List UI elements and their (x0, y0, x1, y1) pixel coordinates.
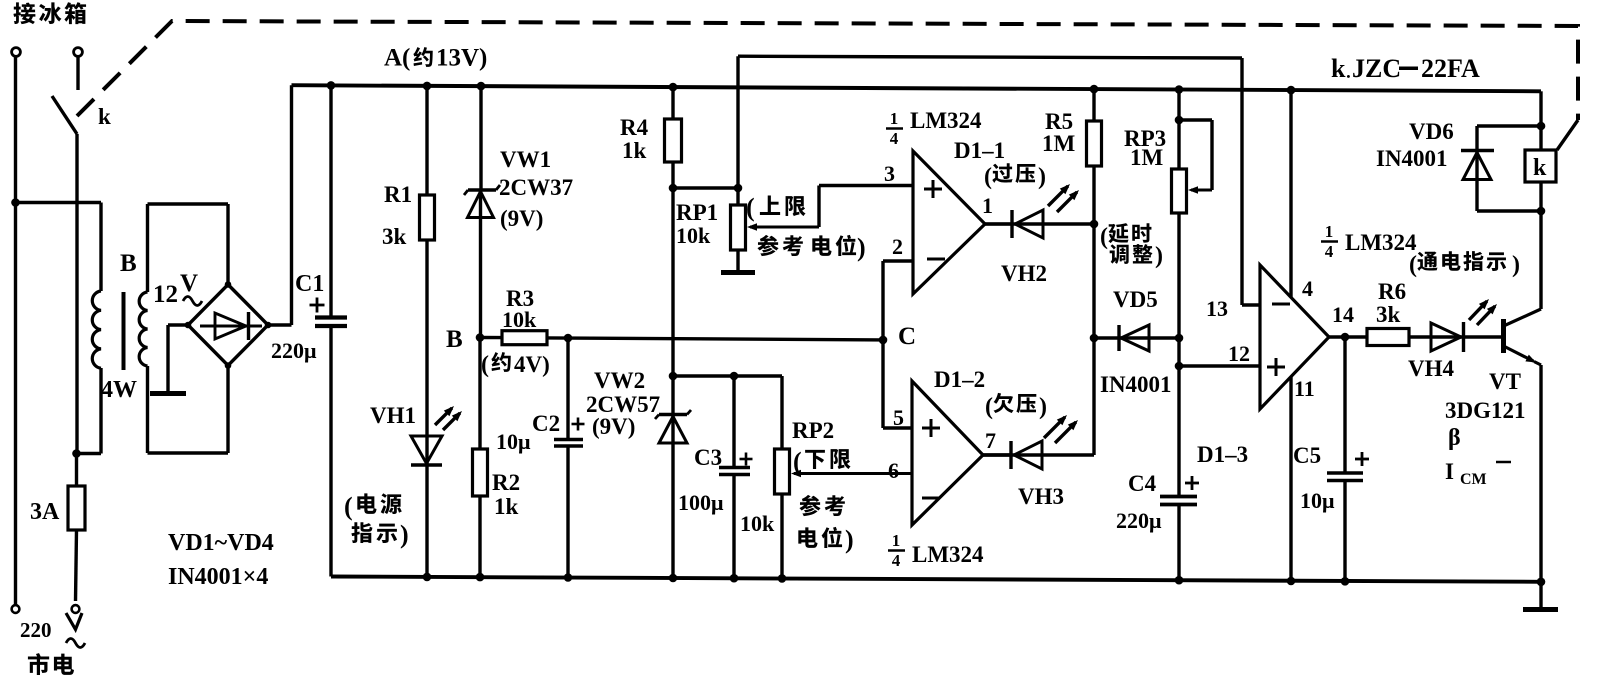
node emitter-rail (1537, 578, 1546, 587)
label 1/4 (D1-2) (888, 531, 905, 570)
wire VD6 bottom (1477, 209, 1541, 212)
svg-text:22FA: 22FA (1421, 54, 1480, 83)
label 220u (C1) (271, 338, 317, 363)
minus D1-1 (927, 258, 945, 261)
svg-text:A(: A( (384, 45, 410, 72)
transformer primary lead top (99, 203, 102, 292)
wire pin1 out (985, 222, 1012, 225)
wire RP3/VD5 down (1177, 338, 1180, 497)
svg-text:IN4001: IN4001 (1100, 372, 1172, 397)
label (9V) VW1 (500, 206, 543, 231)
svg-text:VT: VT (1489, 369, 1521, 394)
svg-text:12: 12 (153, 281, 178, 308)
wire rail to relay (1539, 91, 1542, 126)
svg-text:13: 13 (1206, 296, 1228, 321)
capacitor C1 220u (315, 85, 347, 576)
terminal refrigerator left (12, 48, 21, 57)
svg-text:1M: 1M (1042, 131, 1076, 156)
resistor R4 1k (665, 87, 682, 188)
node VH2-R5 (1090, 220, 1099, 229)
terminal mains left (12, 605, 20, 613)
node rail-R5 (1090, 85, 1099, 94)
svg-text:R6: R6 (1378, 279, 1406, 304)
resistor R6 3k (1367, 329, 1431, 346)
node C5-rail (1341, 577, 1350, 586)
tilde 220~ (66, 639, 85, 648)
svg-text:10μ: 10μ (1300, 488, 1335, 513)
wire mains dashed linkage from switch k to relay (77, 21, 1578, 120)
label beta (1448, 425, 1461, 451)
label VH3 (1018, 484, 1064, 509)
resistor R5 1M (1087, 89, 1102, 455)
transformer core (122, 292, 126, 370)
label RP1 (676, 200, 718, 225)
label VW1 (500, 147, 551, 172)
relay coil k JZC-22FA (1525, 126, 1556, 211)
transformer primary winding (92, 291, 101, 368)
wiper RP3 bracket (1179, 120, 1212, 194)
wire RP1 top to pin 13 (738, 56, 1242, 305)
op-amp D1-3 LM324 (power-on indicator) (1260, 265, 1329, 409)
arrow mains terminal V (66, 613, 82, 630)
label RP2 (792, 418, 834, 443)
label 12V (153, 270, 198, 308)
label (上限 (upper limit) (746, 193, 806, 222)
svg-text:C4: C4 (1128, 471, 1157, 496)
label 1M (RP3) (1130, 145, 1164, 170)
label D1-2 (934, 367, 985, 392)
node RP2-rail (778, 574, 787, 583)
pin 6 label (888, 458, 899, 483)
svg-text:1: 1 (892, 531, 901, 550)
wire secondary bottom to bridge (148, 366, 229, 453)
label 3A (30, 499, 60, 525)
node VH1-rail (423, 573, 432, 582)
svg-text:5: 5 (893, 405, 904, 430)
svg-text:): ) (1512, 252, 1520, 278)
label k (relay coil) (1533, 155, 1547, 181)
label VT (1489, 369, 1521, 394)
svg-text:(9V): (9V) (592, 414, 635, 439)
label 接冰箱 (to refrigerator) (13, 2, 86, 24)
label R5 (1045, 109, 1073, 134)
label 10u (C5) (1300, 488, 1335, 513)
svg-text:RP1: RP1 (676, 200, 718, 225)
svg-text:VH3: VH3 (1018, 484, 1064, 509)
svg-text:VH2: VH2 (1001, 261, 1047, 286)
label 2CW37 (499, 175, 573, 200)
label (下限 (lower limit) (793, 447, 851, 476)
svg-text:): ) (1038, 164, 1046, 190)
bridge vertex dots (185, 281, 272, 369)
label (延时 (delay) (1100, 223, 1151, 250)
svg-text:): ) (857, 233, 866, 262)
svg-text:4: 4 (1302, 276, 1313, 301)
svg-text:VD6: VD6 (1409, 119, 1454, 144)
plus D1-1 (924, 180, 942, 198)
minus D1-2 (922, 497, 940, 500)
potentiometer RP1 10k (731, 56, 746, 271)
label 100u (C3) (678, 490, 724, 515)
LED VH2 (985, 210, 1094, 238)
label IN4001 (VD6) (1376, 146, 1448, 171)
svg-text:7: 7 (985, 428, 996, 453)
svg-text:JZC: JZC (1352, 54, 1401, 83)
svg-text:3k: 3k (1376, 302, 1401, 327)
junction fuse/transformer return (72, 449, 81, 458)
transformer secondary lead bottom (146, 366, 149, 453)
wire switch to fuse vertical (75, 134, 78, 454)
label (过压) (overvoltage) (984, 163, 1046, 190)
svg-text:4: 4 (1325, 242, 1334, 261)
label (通电指示) (power-on indicator) (1409, 251, 1520, 278)
pin 14 label (1332, 302, 1354, 327)
svg-text:B: B (446, 326, 463, 353)
svg-text:2: 2 (892, 234, 903, 259)
node junction mains-left branch (11, 198, 20, 207)
label IN4001 (VD5) (1100, 372, 1172, 397)
svg-text:IN4001×4: IN4001×4 (168, 564, 268, 590)
pin 13 label (1206, 296, 1228, 321)
label C4 (1128, 471, 1157, 496)
ground (main) (1523, 582, 1558, 610)
ground (bridge) (150, 391, 186, 396)
pin 7 label (985, 428, 996, 453)
fuse F1 3A (68, 454, 85, 602)
svg-text:•: • (1347, 71, 1351, 83)
node C3-rail (730, 574, 739, 583)
label 参考 (reference) (799, 495, 844, 516)
svg-text:VH4: VH4 (1408, 356, 1455, 381)
label (9V) VW2 (592, 414, 635, 439)
label 2CW57 (586, 392, 660, 417)
svg-text:6: 6 (888, 458, 899, 483)
zener VW2 2CW57 (655, 410, 691, 578)
tilde 12V~ (183, 297, 202, 306)
svg-text:I: I (1445, 459, 1454, 484)
svg-text:LM324: LM324 (912, 542, 984, 567)
svg-text:2CW37: 2CW37 (499, 175, 573, 200)
label 10k (RP1) (676, 223, 711, 248)
label C3 (694, 445, 722, 470)
svg-text:): ) (400, 520, 409, 549)
label 1k (R2) (494, 494, 519, 519)
wiper RP2 to pin6 (791, 470, 912, 478)
svg-text:14: 14 (1332, 302, 1354, 327)
svg-text:10μ: 10μ (496, 429, 531, 454)
svg-text:220μ: 220μ (1116, 508, 1162, 533)
wire pin 13 stub (1242, 303, 1260, 306)
svg-text:10k: 10k (676, 223, 711, 248)
svg-text:4W: 4W (101, 377, 137, 403)
label LM324 (D1-2) (912, 542, 984, 567)
label 3k (R1) (382, 224, 407, 249)
label RP3 (1124, 126, 1166, 151)
capacitor C2 10u (554, 338, 583, 578)
svg-text:C3: C3 (694, 445, 722, 470)
pin 3 label (884, 161, 895, 186)
potentiometer RP2 10k (775, 376, 790, 578)
label C2 (532, 411, 560, 436)
label R4 (620, 115, 649, 140)
svg-text:(9V): (9V) (500, 206, 543, 231)
node B (476, 333, 485, 342)
node RP1 top (734, 184, 743, 193)
node VW2-rail (669, 574, 678, 583)
wire bridge left vertex to ground (168, 325, 188, 392)
svg-text:R4: R4 (620, 115, 649, 140)
label R1 (384, 182, 412, 207)
svg-text:4: 4 (892, 551, 901, 570)
svg-text:LM324: LM324 (1345, 230, 1417, 255)
label B (node) (446, 326, 463, 353)
label 3k (R6) (1376, 302, 1401, 327)
LED VH2 arrows (1048, 184, 1079, 212)
LED VH3 arrows (1044, 415, 1078, 443)
svg-text:100μ: 100μ (678, 490, 724, 515)
label (欠压) (undervoltage) (985, 393, 1047, 420)
transistor VT emitter (1504, 346, 1542, 582)
resistor R1 3k (420, 86, 435, 436)
op-amp D1-2 LM324 (undervoltage) (912, 381, 983, 525)
svg-text:4V): 4V) (514, 352, 550, 377)
terminal refrigerator right (74, 48, 83, 57)
node VW2 top tee (669, 372, 678, 381)
wire linkage diagonal to relay box (1557, 120, 1578, 150)
svg-text:1: 1 (890, 109, 899, 128)
svg-text:1k: 1k (494, 494, 519, 519)
plus D1-2 (922, 419, 940, 437)
wire mains left vertical (14, 57, 17, 606)
node RP3 bracket top (1175, 116, 1184, 125)
svg-text:VW2: VW2 (594, 368, 645, 393)
svg-text:3A: 3A (30, 499, 60, 525)
svg-text:3k: 3k (382, 224, 407, 249)
ground (RP1) (721, 270, 755, 275)
label LM324 (D1-1) (910, 108, 982, 133)
node rail-C1 (327, 81, 336, 90)
label 1M (R5) (1042, 131, 1076, 156)
capacitor C4 220u (1160, 497, 1197, 581)
svg-text:1M: 1M (1130, 145, 1164, 170)
wire B to R3 (480, 336, 502, 340)
label ICM (1445, 459, 1511, 488)
svg-text:): ) (1039, 394, 1047, 420)
LED VH3 (983, 441, 1094, 469)
svg-text:D1–3: D1–3 (1197, 442, 1248, 467)
label D1-3 (1197, 442, 1248, 467)
svg-text:D1–1: D1–1 (954, 138, 1005, 163)
svg-text:(: ( (1409, 252, 1417, 278)
node C4-rail (1175, 576, 1184, 585)
label C1 (295, 271, 324, 297)
label 参考 电位) (ref potential) (757, 233, 865, 262)
pin 4 label (1302, 276, 1313, 301)
svg-text:(: ( (793, 447, 802, 476)
label LM324 (D1-3) (1345, 230, 1417, 255)
node rail-R1 (423, 82, 432, 91)
wire R4 to RP1 (673, 186, 738, 189)
wire R4 down to VW2 (671, 188, 674, 415)
label 调整) (adjust) (1110, 243, 1163, 269)
svg-text:220: 220 (20, 618, 52, 642)
svg-text:10k: 10k (502, 307, 537, 332)
diode VD5 IN4001 (1094, 325, 1179, 351)
transformer secondary winding (139, 292, 147, 366)
node R2-rail (476, 573, 485, 582)
terminal mains live (72, 605, 80, 613)
node rail-R4 (669, 83, 678, 92)
label R3 (506, 286, 534, 311)
label R6 (1378, 279, 1406, 304)
node C2-rail (564, 573, 573, 582)
label 1/4 (D1-1) (886, 109, 903, 148)
LED VH4 (1431, 322, 1503, 352)
node R4-RP1 (669, 184, 678, 193)
label R2 (492, 470, 520, 495)
pin 2 label (892, 234, 903, 259)
capacitor C3 100u (719, 376, 750, 578)
label 1/4 (D1-3) (1321, 222, 1338, 261)
potentiometer RP3 1M (1172, 90, 1187, 339)
label 1k (R4) (622, 138, 647, 163)
svg-text:3: 3 (884, 161, 895, 186)
svg-text:): ) (845, 525, 854, 554)
svg-text:1k: 1k (622, 138, 647, 163)
node R5-VD5 (1090, 334, 1099, 343)
svg-text:1: 1 (1325, 222, 1334, 241)
node C (879, 336, 888, 345)
LED VH4 arrows (1469, 299, 1497, 325)
svg-text:4: 4 (890, 129, 899, 148)
label VH2 (1001, 261, 1047, 286)
svg-text:(: ( (746, 193, 755, 222)
label C5 (1293, 443, 1321, 468)
node pin12 tap (1175, 362, 1184, 371)
label 指示) (indicator) (351, 520, 408, 549)
node rail-RP3 (1175, 85, 1184, 94)
plus D1-3 (1267, 358, 1285, 376)
svg-text:): ) (1155, 243, 1163, 269)
minus D1-3 (1272, 303, 1290, 306)
transformer secondary lead top (146, 204, 149, 292)
wire bridge output to rail A (268, 85, 292, 325)
plus C4 (1185, 476, 1199, 490)
switch k blade (52, 96, 77, 134)
svg-text:10k: 10k (740, 511, 775, 536)
wire pin14 out (1329, 335, 1367, 338)
resistor R3 10k (502, 331, 547, 345)
svg-text:C: C (898, 323, 916, 350)
svg-text:VW1: VW1 (500, 147, 551, 172)
wire pin5 stub (883, 426, 912, 429)
svg-text:(: ( (985, 394, 993, 420)
label (约4V) (481, 352, 550, 378)
wire pin7 out (983, 453, 1011, 456)
svg-text:R1: R1 (384, 182, 412, 207)
svg-text:k: k (98, 104, 111, 129)
label C (node) (898, 323, 916, 350)
label (电源 (power) (344, 492, 402, 521)
bridge inner diode (200, 312, 262, 340)
pin 5 label (893, 405, 904, 430)
wire ground bottom rail (331, 577, 1541, 582)
svg-text:(: ( (481, 352, 489, 378)
svg-text:1: 1 (982, 193, 993, 218)
wire node C line (547, 338, 883, 340)
svg-text:(: ( (984, 164, 992, 190)
LED VH1 (power indicator) (411, 436, 442, 577)
svg-text:(: ( (1100, 224, 1108, 250)
svg-text:13V): 13V) (436, 45, 487, 72)
node relay bottom (1537, 207, 1546, 216)
svg-text:VD5: VD5 (1113, 287, 1158, 312)
plus C3 (740, 453, 753, 466)
node output-C5 (1341, 333, 1350, 342)
zener VW1 2CW37 (464, 86, 500, 337)
svg-text:12: 12 (1228, 341, 1250, 366)
label 3DG121 (1445, 398, 1526, 423)
node rail-VW1 (477, 82, 486, 91)
label VD6 (1409, 119, 1454, 144)
label VW2 (594, 368, 645, 393)
label VD5 (1113, 287, 1158, 312)
svg-text:IN4001: IN4001 (1376, 146, 1448, 171)
label D1-1 (954, 138, 1005, 163)
wire secondary top to bridge (148, 204, 229, 285)
bridge rectifier VD1-VD4 diamond (188, 285, 268, 366)
svg-text:β: β (1448, 425, 1461, 451)
svg-text:C2: C2 (532, 411, 560, 436)
label 10k (RP2) (740, 511, 775, 536)
label 10k (R3) (502, 307, 537, 332)
label IN4001x4 (168, 564, 268, 590)
label k:JZC-22FA (1331, 54, 1480, 83)
transistor VT 3DG121 base bar (1501, 319, 1506, 353)
wire pin 12 (1179, 364, 1260, 367)
label 电位) (potential) (798, 525, 853, 554)
svg-text:(: ( (344, 492, 353, 521)
plus C5 (1355, 452, 1369, 466)
node pin11-rail (1287, 577, 1296, 586)
label k (switch) (98, 104, 111, 129)
op-amp D1-1 LM324 (overvoltage) (913, 151, 985, 294)
LED VH1 arrows (435, 406, 462, 430)
wiper RP1 (747, 186, 913, 231)
svg-text:V: V (180, 270, 198, 297)
wire VW2 tee to C3/RP2 (673, 374, 782, 377)
svg-text:LM324: LM324 (910, 108, 982, 133)
transistor VT collector (1504, 211, 1542, 326)
svg-text:11: 11 (1294, 376, 1315, 401)
svg-text:C5: C5 (1293, 443, 1321, 468)
svg-text:D1–2: D1–2 (934, 367, 985, 392)
transformer primary lead bottom (77, 368, 102, 454)
node VD5-RP3 (1175, 334, 1184, 343)
wire pin 11 to rail (1289, 377, 1292, 581)
svg-text:VD1~VD4: VD1~VD4 (168, 530, 274, 556)
svg-text:3DG121: 3DG121 (1445, 398, 1526, 423)
svg-text:C1: C1 (295, 271, 324, 297)
svg-text:k: k (1331, 54, 1346, 83)
wire mains horizontal to transformer (16, 201, 102, 204)
node C3 tap (730, 372, 739, 381)
svg-text:CM: CM (1460, 471, 1487, 488)
pin 1 label (982, 193, 993, 218)
capacitor C5 10u (1327, 337, 1363, 581)
wire switch upper stub (76, 57, 79, 91)
label VH4 (1408, 356, 1455, 381)
